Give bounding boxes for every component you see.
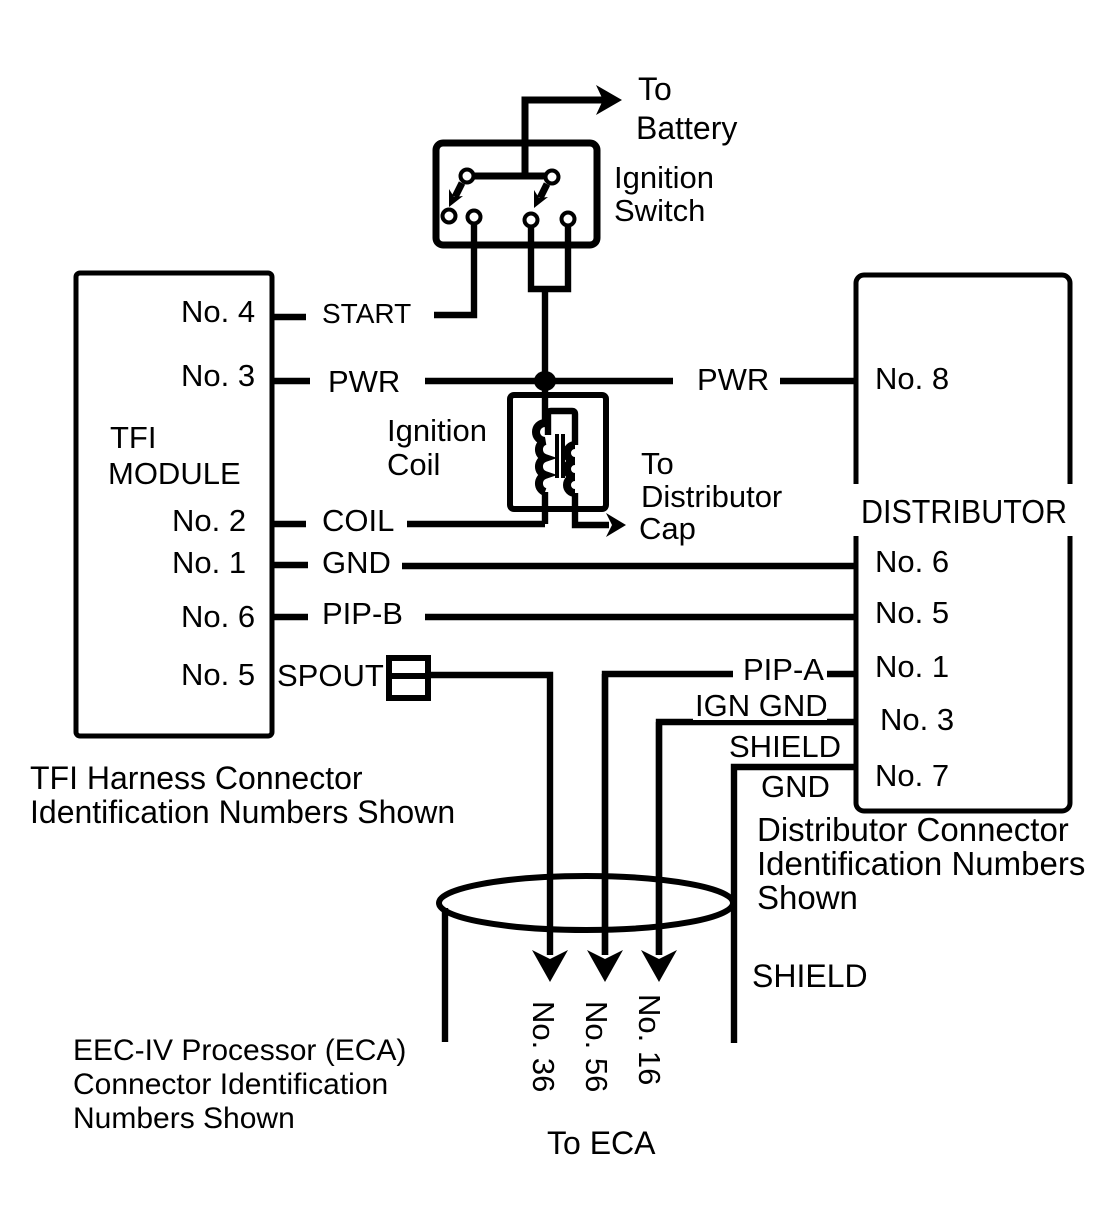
wire PWR left segment: [425, 378, 673, 384]
svg-text:No. 5: No. 5: [875, 595, 949, 630]
wire arrow to ECA No. 16: [641, 722, 677, 982]
svg-text:No. 3: No. 3: [181, 358, 255, 393]
svg-text:No. 6: No. 6: [181, 599, 255, 634]
svg-text:GND: GND: [322, 545, 391, 580]
wire START stub: [272, 314, 306, 320]
svg-text:Ignition: Ignition: [387, 413, 487, 448]
svg-text:No. 1: No. 1: [875, 649, 949, 684]
wire arrow to ECA No. 36: [532, 950, 568, 982]
wire PWR stub: [272, 378, 310, 384]
wire IGN GND run: [659, 722, 856, 955]
svg-text:DISTRIBUTOR: DISTRIBUTOR: [861, 493, 1067, 530]
svg-text:No. 7: No. 7: [875, 758, 949, 793]
svg-text:PWR: PWR: [328, 364, 400, 399]
label GND right: [759, 769, 833, 804]
svg-text:Connector Identification: Connector Identification: [73, 1068, 388, 1101]
switch wiper arrow right: [534, 184, 548, 208]
svg-text:No. 56: No. 56: [579, 1001, 614, 1092]
switch contact circle lower-4: [562, 213, 575, 226]
svg-text:Ignition: Ignition: [614, 160, 714, 195]
svg-text:PIP-A: PIP-A: [743, 652, 824, 687]
wire SHIELD run: [734, 767, 856, 1043]
svg-text:TFI Harness Connector: TFI Harness Connector: [30, 760, 363, 796]
coil secondary winding: [548, 411, 626, 537]
wire to battery: [525, 85, 622, 177]
svg-text:To: To: [641, 446, 674, 481]
wire switch run U bracket: [531, 227, 568, 289]
wire GND stub: [272, 562, 308, 568]
svg-text:EEC-IV Processor (ECA): EEC-IV Processor (ECA): [73, 1034, 406, 1067]
distributor box U3: [856, 275, 1070, 811]
TFI module box U2: [76, 273, 272, 736]
svg-text:MODULE: MODULE: [108, 456, 241, 491]
svg-text:No. 5: No. 5: [181, 657, 255, 692]
svg-text:PIP-B: PIP-B: [322, 596, 403, 631]
wire SPOUT run: [428, 675, 550, 955]
svg-text:No. 6: No. 6: [875, 544, 949, 579]
coil core: [557, 434, 563, 478]
svg-text:GND: GND: [761, 769, 830, 804]
svg-text:SHIELD: SHIELD: [752, 958, 868, 994]
wire PWR right segment: [780, 378, 856, 384]
svg-text:To ECA: To ECA: [547, 1125, 656, 1161]
wire run to PWR junction: [542, 289, 548, 381]
svg-text:Identification Numbers: Identification Numbers: [757, 845, 1085, 882]
switch contact bar: [467, 173, 552, 180]
wire PIP-A stub: [827, 671, 856, 677]
svg-text:No. 16: No. 16: [632, 994, 667, 1085]
svg-text:No. 3: No. 3: [880, 702, 954, 737]
coil primary winding: [536, 381, 545, 524]
wire PIP-B stub: [272, 614, 308, 620]
switch contact circle lower-2 START: [468, 211, 481, 224]
svg-text:Battery: Battery: [636, 110, 737, 146]
svg-text:PWR: PWR: [697, 362, 769, 397]
wire shield left drop: [442, 908, 448, 1042]
svg-text:SPOUT: SPOUT: [277, 658, 384, 693]
wire arrow to ECA No. 56: [587, 674, 623, 982]
svg-text:Cap: Cap: [639, 511, 696, 546]
svg-text:COIL: COIL: [322, 503, 394, 538]
connector SPOUT inline: [389, 658, 428, 698]
switch contact circle lower-3: [525, 214, 538, 227]
wire PIP-A run: [605, 674, 733, 955]
svg-text:No. 8: No. 8: [875, 361, 949, 396]
label IGN GND: [693, 688, 828, 723]
switch wiper arrow left: [449, 183, 463, 207]
ignition coil T1 box: [510, 395, 606, 509]
switch contact circle lower-1: [443, 210, 456, 223]
svg-text:To: To: [638, 71, 672, 107]
svg-text:Shown: Shown: [757, 879, 858, 916]
ignition switch box SW1: [436, 143, 597, 245]
svg-text:START: START: [322, 298, 411, 329]
switch contact circle upper-left: [461, 170, 474, 183]
svg-text:Switch: Switch: [614, 193, 705, 228]
switch contact circle upper-right: [546, 171, 559, 184]
svg-text:No. 36: No. 36: [526, 1001, 561, 1092]
svg-text:No. 4: No. 4: [181, 294, 255, 329]
wire PIP-B to distributor: [425, 614, 856, 620]
svg-text:Coil: Coil: [387, 447, 440, 482]
wire START from switch: [434, 225, 474, 315]
label DISTRIBUTOR: [846, 484, 1080, 536]
svg-text:No. 2: No. 2: [172, 503, 246, 538]
wire GND to distributor: [402, 563, 856, 569]
node PWR junction: [534, 371, 556, 391]
svg-text:Numbers Shown: Numbers Shown: [73, 1102, 295, 1135]
wire COIL stub: [272, 521, 306, 527]
svg-text:IGN GND: IGN GND: [695, 688, 828, 723]
svg-text:Identification Numbers Shown: Identification Numbers Shown: [30, 794, 455, 830]
wire COIL to coil primary: [407, 521, 545, 527]
svg-text:TFI: TFI: [110, 420, 157, 455]
svg-text:SHIELD: SHIELD: [729, 729, 841, 764]
cable shield ellipse: [439, 876, 733, 930]
svg-text:Distributor: Distributor: [641, 479, 782, 514]
svg-text:Distributor Connector: Distributor Connector: [757, 811, 1069, 848]
svg-text:No. 1: No. 1: [172, 545, 246, 580]
